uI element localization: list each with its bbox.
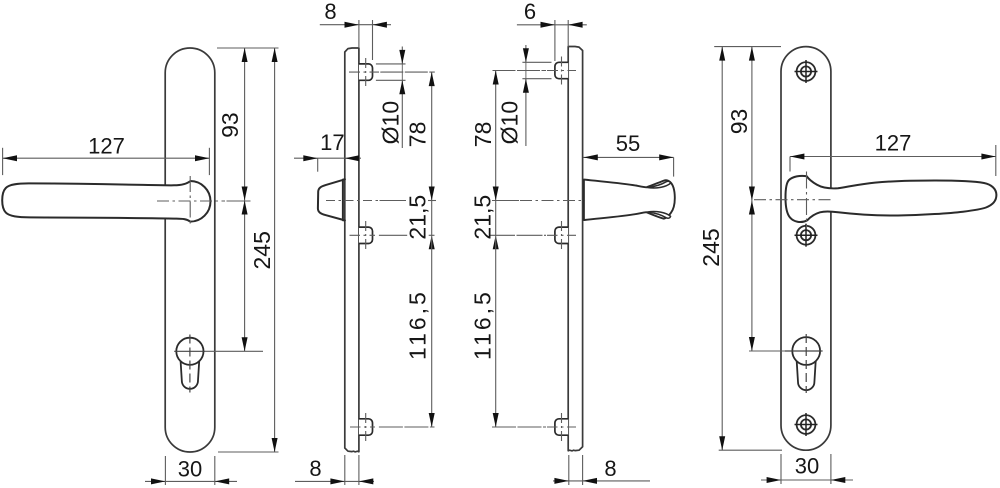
svg-text:116,5: 116,5 — [405, 289, 431, 360]
svg-text:245: 245 — [698, 228, 724, 266]
svg-text:8: 8 — [604, 456, 616, 481]
svg-text:245: 245 — [249, 231, 275, 269]
svg-text:78: 78 — [470, 122, 496, 148]
svg-text:93: 93 — [726, 109, 752, 135]
svg-text:93: 93 — [217, 112, 243, 138]
svg-text:8: 8 — [324, 0, 336, 24]
svg-text:Ø10: Ø10 — [378, 101, 404, 144]
svg-text:30: 30 — [795, 454, 819, 479]
svg-text:127: 127 — [875, 130, 912, 155]
svg-text:6: 6 — [524, 0, 536, 24]
svg-text:116,5: 116,5 — [470, 289, 496, 360]
svg-text:21,5: 21,5 — [405, 195, 431, 240]
svg-text:21,5: 21,5 — [470, 195, 496, 240]
svg-text:55: 55 — [616, 131, 640, 156]
svg-text:30: 30 — [178, 457, 202, 482]
svg-text:17: 17 — [320, 130, 344, 155]
svg-text:8: 8 — [309, 456, 321, 481]
svg-text:78: 78 — [404, 122, 430, 148]
svg-text:127: 127 — [88, 133, 125, 158]
svg-text:Ø10: Ø10 — [497, 101, 523, 144]
